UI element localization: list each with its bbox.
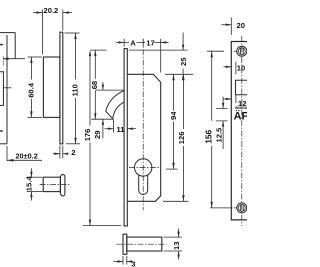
pin centreline [117, 243, 167, 245]
body bottom extension right [163, 200, 189, 202]
dimension 20 extension [230, 18, 232, 36]
faceplate top extension line left [90, 49, 107, 51]
dimension 126 line [182, 74, 184, 201]
front faceplate [124, 49, 127, 226]
dimension 12.5 extensions [216, 108, 228, 121]
dimension 68 arrows [94, 50, 96, 56]
sleeve centreline [40, 183, 70, 185]
vertical centreline [142, 39, 144, 210]
dimension 176 arrows [89, 50, 91, 56]
body top extension line right [165, 73, 193, 75]
side view faceplate bar [60, 32, 63, 144]
svg-text:156: 156 [203, 129, 213, 143]
svg-text:94: 94 [169, 111, 178, 120]
dimension 68 line [94, 50, 96, 119]
svg-text:10: 10 [237, 63, 245, 72]
dimension 25 line and arrows [182, 33, 184, 51]
left case bottom edge [0, 143, 7, 145]
dimension 156 line [211, 51, 213, 208]
dimension 110 line [75, 33, 77, 144]
leader arrow upper [0, 44, 1, 46]
dimension 20±0.2 line [7, 159, 42, 161]
left case main right edge [6, 35, 8, 144]
dimension A/17 extensions [124, 39, 161, 73]
dimension 12.5 arrows (outside) [222, 97, 224, 150]
faceplate top extension line right [129, 49, 188, 51]
cylinder horizontal centreline [129, 167, 159, 169]
left case top edge [0, 32, 15, 34]
pin body [127, 237, 162, 251]
lock body outline [127, 74, 160, 201]
strike plate outline [231, 42, 247, 220]
dimension 15.4 arrows (outside) [30, 168, 32, 200]
svg-text:126: 126 [177, 132, 186, 145]
svg-text:ÄFELE: ÄFELE [234, 110, 247, 123]
sleeve body [43, 177, 60, 191]
dimension 3 arrows [114, 261, 124, 263]
left case hidden edge (grey) [2, 56, 4, 66]
dimension 10 arrow [224, 66, 232, 68]
dimension 110 arrows [74, 33, 76, 39]
dimension 20.2 left extension [42, 10, 44, 55]
dimension 2 extensions [60, 146, 63, 159]
dimension 156 arrows [211, 51, 213, 57]
dimension 60.4 arrows [30, 57, 32, 63]
dimension 110 top extension [65, 32, 80, 34]
svg-text:INNOVATIONS: INNOVATIONS [235, 106, 247, 110]
svg-text:110: 110 [71, 84, 80, 96]
dimension 11 arrows [105, 128, 114, 130]
dimension 15.4 bottom extension [27, 191, 43, 193]
left case centre tick [4, 87, 12, 89]
hook tip vertical extension [113, 119, 115, 132]
leader arrow lower [3, 58, 25, 60]
strike plate centreline [241, 36, 243, 226]
euro profile cylinder slot [139, 175, 148, 195]
dimension 156 top extension [207, 50, 224, 52]
dimension A/17 arrows [116, 41, 124, 43]
hook tip extension line [91, 118, 113, 120]
hook hole [236, 80, 248, 95]
dimension 176 line [89, 53, 91, 226]
dimension 13 extensions [164, 237, 183, 251]
dimension 110 bottom extension [66, 143, 80, 145]
svg-text:60.4: 60.4 [26, 82, 35, 98]
euro profile cylinder hole circle [135, 159, 152, 176]
leader arrow bottom-left [0, 130, 1, 132]
top screw [237, 46, 247, 56]
svg-text:29: 29 [93, 131, 102, 139]
svg-text:13: 13 [172, 242, 181, 250]
dimension 20.2 line right arrow [63, 12, 72, 14]
dimension 20.2 line left arrow [33, 12, 43, 14]
faceplate bottom extension left [83, 225, 121, 227]
dimension 20 arrow [222, 24, 232, 26]
svg-text:25: 25 [179, 57, 188, 66]
svg-text:A: A [130, 38, 136, 47]
dimension 29 arrows (outside) [102, 82, 104, 90]
svg-text:20: 20 [237, 21, 245, 30]
dimension 60.4 line [30, 57, 32, 117]
dimension 12 arrow [224, 98, 232, 100]
dimension 60.4 bottom extension [28, 116, 43, 118]
hook hole edge extension [235, 62, 237, 104]
svg-text:176: 176 [83, 129, 92, 142]
svg-text:17: 17 [146, 38, 154, 47]
sleeve flange [60, 175, 65, 196]
dimension A/17 line [124, 41, 161, 43]
svg-text:2: 2 [71, 148, 75, 157]
hook bolt [106, 91, 124, 119]
dimension 126 arrows [182, 74, 184, 80]
dimension 20±0.2 extension line [6, 146, 8, 161]
svg-text:3: 3 [131, 259, 135, 267]
side view case [43, 57, 60, 117]
dimension 156 bottom extension [210, 207, 233, 209]
svg-text:12.5: 12.5 [214, 127, 223, 143]
cylinder centre extension right [166, 168, 178, 170]
dimension 94 line [173, 74, 175, 169]
svg-text:15.4: 15.4 [25, 176, 34, 192]
dimension 94 arrows [172, 74, 174, 80]
pin cap [123, 234, 127, 254]
svg-text:20±0.2: 20±0.2 [16, 152, 38, 161]
dimension 20±0.2 arrow [7, 159, 14, 162]
dimension 13 arrows (outside) [178, 229, 180, 260]
dimension 60.4 top extension [28, 56, 43, 58]
left case inner slot rectangle [0, 72, 3, 106]
dimension 29 extension at hook root [95, 89, 124, 91]
svg-text:68: 68 [90, 81, 99, 89]
dimension 15.4 top extension [27, 176, 43, 178]
svg-text:11: 11 [117, 125, 126, 134]
bottom screw [237, 203, 247, 213]
dimension 3 extensions [123, 256, 127, 265]
dimension 20.2 right extension [62, 10, 64, 31]
left case right edge upper [14, 33, 16, 59]
dimension 2 arrows [53, 153, 60, 155]
svg-text:20.2: 20.2 [44, 6, 59, 15]
